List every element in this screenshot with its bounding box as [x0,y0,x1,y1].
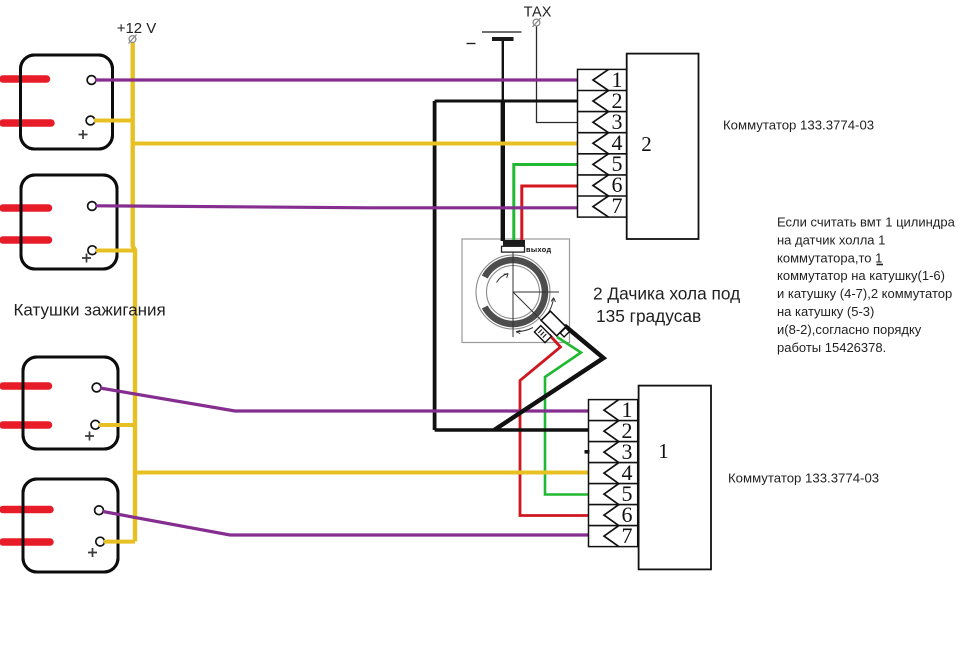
wire: black hall plug to X1 pin 2 diagonal [495,326,604,430]
node: +12V terminal symbol [129,35,137,44]
ignition coil K1 [3,55,113,149]
wire: black ground bus to X2 pin 2 [435,100,578,103]
svg-text:1: 1 [658,439,669,463]
svg-text:7: 7 [622,523,633,548]
svg-text:коммутатора,то 1: коммутатора,то 1 [777,250,882,265]
svg-text:2 Дачика хола под: 2 Дачика хола под [593,284,740,304]
wire: yellow bus to connector X2 pin 4 [133,142,578,146]
hall sensor G1 (scanned image box) [462,239,570,343]
ignition coil K4 [3,479,118,572]
wire: yellow bus to connector X1 pin 4 [135,471,589,475]
node: stub at X1 pin 3 [585,450,590,454]
pin numbers X1 [622,397,633,548]
svg-text:на датчик холла 1: на датчик холла 1 [777,232,885,247]
svg-text:на катушку (5-3): на катушку (5-3) [777,304,874,319]
wire: purple K4 to X1 pin 7 [103,512,589,536]
note paragraph [777,215,956,355]
wire: purple K3 to X1 pin 1 [100,388,589,411]
svg-text:Если считать вмт 1 цилиндра: Если считать вмт 1 цилиндра [777,215,956,230]
hall sensor top output plug [502,240,552,254]
svg-text:и катушку (4-7),2 коммутатор: и катушку (4-7),2 коммутатор [777,286,952,301]
svg-text:работы 15426378.: работы 15426378. [777,340,886,355]
pin numbers X2 [612,67,623,218]
wire: black ground stem to hall sensor plug [501,101,505,241]
wire: black vertical ground drop left [433,101,437,430]
svg-text:коммутатор на катушку(1-6): коммутатор на катушку(1-6) [777,268,945,283]
svg-text:и(8-2),согласно порядку: и(8-2),согласно порядку [777,322,922,337]
wire: red hall plug to X1 pin 6 [520,335,589,516]
wire: green hall sensor to X2 pin 5 [514,165,578,242]
svg-text:ТАХ: ТАХ [524,5,552,21]
svg-text:7: 7 [612,193,623,218]
svg-text:+12 V: +12 V [117,20,157,37]
wire: ground stem [502,41,504,101]
commutator U2 box [627,54,699,239]
hall sensor output plug (tilted) [532,311,570,349]
commutator U1 box [639,386,711,570]
svg-text:выход: выход [526,245,552,254]
node: TAX terminal symbol [533,18,541,27]
wire: black ground to X1 pin 2 [435,428,589,432]
wire: green hall plug to X1 pin 5 [545,337,589,495]
svg-text:135 градусав: 135 градусав [596,306,701,326]
wire: purple K1 to X2 pin 1 [95,78,578,81]
wire: +12V yellow bus vertical [133,43,135,542]
wire: yellow K2 plus to bus [96,249,135,253]
connector X1 (bottom, 7 pins) [589,400,638,547]
ground symbol [467,32,522,44]
ignition coil K3 [3,357,118,449]
wire: yellow K3 plus to bus [99,423,135,427]
connector X2 (top, 7 pins) [578,69,627,217]
ignition coil K2 [3,175,117,269]
wire: purple K2 to X2 pin 7 [96,206,578,208]
wire: yellow K1 plus to bus [94,119,133,123]
wire: yellow K4 plus to bus bottom [104,540,135,544]
svg-text:2: 2 [641,132,652,156]
svg-text:Коммутатор 133.3774-03: Коммутатор 133.3774-03 [723,117,874,132]
wire: red hall sensor to X2 pin 6 [522,186,578,241]
wire: TAX line to X2 pin 3 [537,26,578,123]
svg-text:Катушки зажигания: Катушки зажигания [14,301,166,320]
svg-text:Коммутатор 133.3774-03: Коммутатор 133.3774-03 [728,470,879,485]
